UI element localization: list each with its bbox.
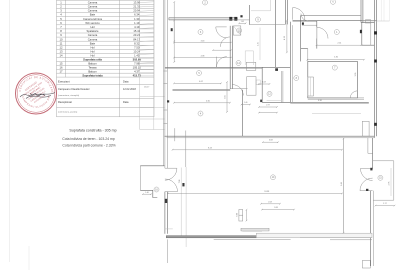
svg-text:2.97: 2.97 <box>266 105 270 107</box>
round red stamp <box>0 0 57 114</box>
double door left <box>165 168 178 191</box>
right wall jog rect mid <box>362 121 369 136</box>
svg-text:Hol: Hol <box>90 54 94 58</box>
room label top <box>203 0 208 5</box>
dim 8.23 <box>172 149 343 151</box>
right dim horizontal top <box>362 20 390 22</box>
svg-text:14: 14 <box>60 54 63 58</box>
svg-text:16: 16 <box>60 66 63 70</box>
svg-text:2.76: 2.76 <box>388 182 390 186</box>
wall V x262 <box>261 67 263 102</box>
sink fixture <box>256 80 260 85</box>
svg-text:Camera: Camera <box>88 0 98 4</box>
wall y45 right <box>362 44 375 46</box>
door arc room3 <box>217 57 227 67</box>
wall V x290 (double) <box>289 22 291 103</box>
wall blob 5 <box>374 31 377 34</box>
svg-text:4.37: 4.37 <box>134 69 140 73</box>
nook outline <box>245 51 253 65</box>
svg-text:Terasa: Terasa <box>88 66 97 70</box>
room label c8 <box>294 76 299 81</box>
dim 5.36 <box>307 59 365 61</box>
small box bottom right <box>362 260 370 268</box>
wall H10 room divider <box>173 89 231 92</box>
tub line <box>267 99 282 101</box>
bottom terrace line <box>214 239 291 241</box>
wall blob small b <box>167 100 169 102</box>
svg-text:Camera: Camera <box>88 4 98 8</box>
svg-text:302.98: 302.98 <box>133 58 142 62</box>
svg-text:Suprafata utila: Suprafata utila <box>83 58 102 62</box>
wall blob x262 bottom <box>260 100 262 103</box>
wall V mid-left rooms <box>242 90 244 136</box>
svg-text:1.40: 1.40 <box>145 192 149 194</box>
svg-text:3.68: 3.68 <box>274 207 278 209</box>
dim chain left vertical <box>173 1 175 63</box>
column detail <box>239 210 243 222</box>
left balcony bottom wall <box>140 190 157 197</box>
room label small <box>236 61 241 66</box>
svg-text:4.90: 4.90 <box>318 100 322 102</box>
svg-text:Baie: Baie <box>90 41 96 45</box>
right dim 1.17 <box>375 205 396 207</box>
wall H4 <box>293 20 377 22</box>
wall V5 (double) <box>230 26 232 89</box>
dim 3.68 <box>262 141 279 143</box>
svg-text:7.50: 7.50 <box>134 45 140 49</box>
room label balc l <box>154 187 159 192</box>
svg-text:13: 13 <box>60 50 63 54</box>
dim y50 room3 <box>212 49 232 51</box>
svg-text:3.43: 3.43 <box>201 40 205 42</box>
svg-text:1.45: 1.45 <box>134 54 140 58</box>
svg-text:WC serviciu: WC serviciu <box>85 21 100 25</box>
svg-text:Receptionat: Receptionat <box>58 100 72 104</box>
svg-text:Hol: Hol <box>90 45 94 49</box>
dim 18.38 <box>167 193 343 195</box>
dim 1.40 small <box>241 104 251 106</box>
room label big <box>271 175 276 180</box>
door arc V5 <box>220 37 230 47</box>
svg-text:Camera: Camera <box>88 37 98 41</box>
svg-text:Executant: Executant <box>58 80 70 84</box>
svg-text:105.10: 105.10 <box>133 66 142 70</box>
wall shelf line <box>302 24 317 26</box>
corridor wall left (triple) <box>164 0 168 234</box>
door arc top-right block <box>301 14 308 21</box>
wall blob H8-V7 junction <box>275 68 278 71</box>
scan fold line left <box>9 0 11 262</box>
room1 left wall <box>316 21 318 49</box>
room label bath <box>267 91 272 96</box>
dim 2.97 small <box>258 106 278 108</box>
room label r4 <box>198 111 203 116</box>
wall blob 8 <box>374 123 377 126</box>
shelf in big room <box>241 228 269 231</box>
wall H11 <box>262 102 369 103</box>
wall blob door left <box>165 199 168 203</box>
room label hall <box>256 17 261 22</box>
dim 1.05 <box>238 23 246 25</box>
right balcony dim v <box>390 168 392 196</box>
room7 outline <box>308 61 358 98</box>
svg-text:Balcon: Balcon <box>88 69 97 73</box>
svg-text:1.05: 1.05 <box>241 21 244 23</box>
wall blob dimline <box>182 183 184 186</box>
wall H4b <box>293 21 318 23</box>
dim 4.38 <box>173 57 232 59</box>
dim 4.60 <box>173 102 231 104</box>
svg-text:5.36: 5.36 <box>334 56 338 58</box>
door threshold line <box>164 228 172 230</box>
wall blob small a <box>171 28 173 31</box>
svg-text:10: 10 <box>60 37 63 41</box>
wall H3 <box>361 22 374 24</box>
dim 3.43 <box>173 42 232 44</box>
svg-text:5.66: 5.66 <box>341 182 343 186</box>
wall stub x307.8 <box>307 49 309 62</box>
room1 bottom wall stub <box>301 48 308 50</box>
door arc H10 <box>233 85 244 96</box>
dim small e <box>258 112 278 114</box>
right dim verticals top <box>381 0 389 21</box>
room label tr <box>331 0 336 4</box>
svg-text:1.19: 1.19 <box>134 21 140 25</box>
svg-text:Camera: Camera <box>88 9 98 13</box>
svg-text:15: 15 <box>60 62 63 66</box>
small dim b bottom <box>261 209 295 211</box>
faint line under room7 <box>312 112 361 114</box>
svg-text:3.05: 3.05 <box>224 95 226 99</box>
wall blob 1 <box>229 17 232 21</box>
svg-text:3.68: 3.68 <box>269 140 273 142</box>
corridor floor line <box>249 24 285 26</box>
big room dim line vert x181 <box>180 168 182 238</box>
wall jog at big room wall <box>174 128 176 141</box>
bath wall pair x282 <box>281 71 283 102</box>
door arc D1 room2 <box>216 27 227 38</box>
svg-text:1.08: 1.08 <box>262 82 265 84</box>
svg-text:(semnatura, parafa): (semnatura, parafa) <box>58 110 77 113</box>
signature <box>20 93 55 99</box>
wall blob 4 <box>360 30 362 33</box>
small dim a bottom <box>260 203 281 205</box>
svg-text:Spalatorie: Spalatorie <box>86 29 99 33</box>
svg-text:Camera tehnica: Camera tehnica <box>83 17 102 21</box>
right wall lower (double) <box>371 191 374 266</box>
small shaft rect <box>233 26 240 35</box>
room label wc <box>237 28 242 33</box>
door arc room1 <box>317 27 328 38</box>
thick wall upper-left <box>169 18 237 20</box>
wall V8 (double) <box>285 0 287 24</box>
room area table <box>57 0 155 117</box>
svg-text:Campeanu Claudiu Detedel: Campeanu Claudiu Detedel <box>58 87 90 91</box>
svg-text:Baie: Baie <box>90 13 96 17</box>
big room top wall (double) <box>164 136 374 138</box>
svg-text:3.05: 3.05 <box>355 73 357 77</box>
corridor wall V6 <box>248 5 250 25</box>
corridor wall ticks <box>164 71 168 124</box>
svg-text:6.34: 6.34 <box>134 13 140 17</box>
small box top-right <box>365 20 370 23</box>
svg-text:1.40: 1.40 <box>244 102 247 104</box>
left balcony top wall <box>140 165 164 167</box>
svg-text:12.02.2018: 12.02.2018 <box>123 87 136 91</box>
right outer wall (double) <box>374 0 376 138</box>
svg-text:2.08: 2.08 <box>268 201 272 203</box>
svg-text:12: 12 <box>60 45 63 49</box>
svg-text:8.32: 8.32 <box>134 41 140 45</box>
wall stub x185.8 <box>185 131 187 168</box>
svg-text:7.98: 7.98 <box>179 180 181 184</box>
scan fold line left lower <box>28 246 30 270</box>
staircase <box>140 0 165 130</box>
door arc room7 <box>350 91 357 98</box>
top room divider wall <box>169 19 250 21</box>
closet rect A <box>246 62 256 70</box>
svg-text:4.19: 4.19 <box>134 25 140 29</box>
svg-text:Suprafata totala: Suprafata totala <box>82 73 103 77</box>
svg-text:2.14: 2.14 <box>337 42 341 44</box>
bottom terrace line right <box>330 239 372 241</box>
wall V left of top-right block <box>300 16 302 62</box>
left balcony dim <box>142 193 152 195</box>
bottom left vertical <box>167 239 169 263</box>
right balcony outline <box>373 161 394 200</box>
svg-text:Suprafata construita - 305 mp: Suprafata construita - 305 mp <box>69 128 116 132</box>
svg-text:25x17: 25x17 <box>144 86 149 88</box>
svg-text:18.38: 18.38 <box>264 191 269 193</box>
svg-text:1.30: 1.30 <box>134 17 140 21</box>
room7 bottom ext <box>357 97 364 99</box>
corridor dim x260 <box>259 28 261 61</box>
wall blob door right bottom <box>366 189 368 191</box>
room label r3 <box>198 30 203 35</box>
svg-text:4.02: 4.02 <box>199 81 203 83</box>
wall blob door right top <box>370 168 372 171</box>
svg-text:17: 17 <box>60 69 63 73</box>
wall blob 2 <box>234 17 237 21</box>
left balcony left wall <box>139 166 141 191</box>
svg-text:Cota indiviza de teren - 103.2: Cota indiviza de teren - 103.24 mp <box>62 137 115 141</box>
wall blob 7 <box>374 60 377 63</box>
svg-text:1.17: 1.17 <box>383 203 387 205</box>
dim 2.14 <box>316 44 363 46</box>
wall x370 <box>370 23 372 45</box>
svg-text:7.98: 7.98 <box>134 62 140 66</box>
bottom wall thick dark <box>166 236 256 238</box>
wall H9 <box>230 88 247 90</box>
svg-text:4.38: 4.38 <box>201 55 205 57</box>
dim 3.05 room4 <box>226 81 228 113</box>
svg-text:Camera: Camera <box>88 33 98 37</box>
svg-text:4.60: 4.60 <box>206 100 210 102</box>
svg-text:Data: Data <box>123 80 129 84</box>
top cut room line <box>251 10 271 12</box>
dim marks near column <box>246 209 248 221</box>
double door right <box>360 169 373 191</box>
big room right wall <box>368 138 373 169</box>
svg-text:(semnatura, stampila): (semnatura, stampila) <box>58 94 79 97</box>
wall H8 under rooms 3-5 <box>165 67 290 68</box>
wall blob 3 <box>240 15 242 17</box>
svg-text:Balcon: Balcon <box>88 62 97 66</box>
wall blob 6 <box>302 22 304 24</box>
wall H2 top-right <box>301 15 361 17</box>
dim 5.66 <box>343 138 345 233</box>
svg-text:4.25: 4.25 <box>258 42 260 46</box>
svg-text:Hol: Hol <box>90 50 94 54</box>
wall V9 extension <box>361 23 363 46</box>
room7 closet <box>308 77 314 96</box>
dim 4.02 room3 <box>173 83 222 85</box>
svg-text:415.73: 415.73 <box>133 73 142 77</box>
svg-text:8.23: 8.23 <box>208 147 212 149</box>
room label r1 <box>334 30 339 35</box>
svg-text:Data: Data <box>123 100 129 104</box>
svg-text:4.18: 4.18 <box>284 36 286 40</box>
room label r5 <box>197 71 202 76</box>
svg-text:Hol: Hol <box>90 25 94 29</box>
bottom wall light <box>256 233 372 237</box>
room label balc r <box>378 175 383 180</box>
room label r7 <box>332 65 337 70</box>
closet rect B <box>247 77 256 96</box>
corridor wall V7 <box>275 0 277 67</box>
svg-text:0.88: 0.88 <box>236 213 238 216</box>
door arc corridor top <box>293 8 305 20</box>
dim small bath <box>258 83 271 85</box>
svg-text:11: 11 <box>60 41 63 45</box>
svg-text:Cota indiviza parti comune - 2: Cota indiviza parti comune - 2.33% <box>62 143 115 147</box>
wall V9 top-right (double) <box>361 0 363 23</box>
